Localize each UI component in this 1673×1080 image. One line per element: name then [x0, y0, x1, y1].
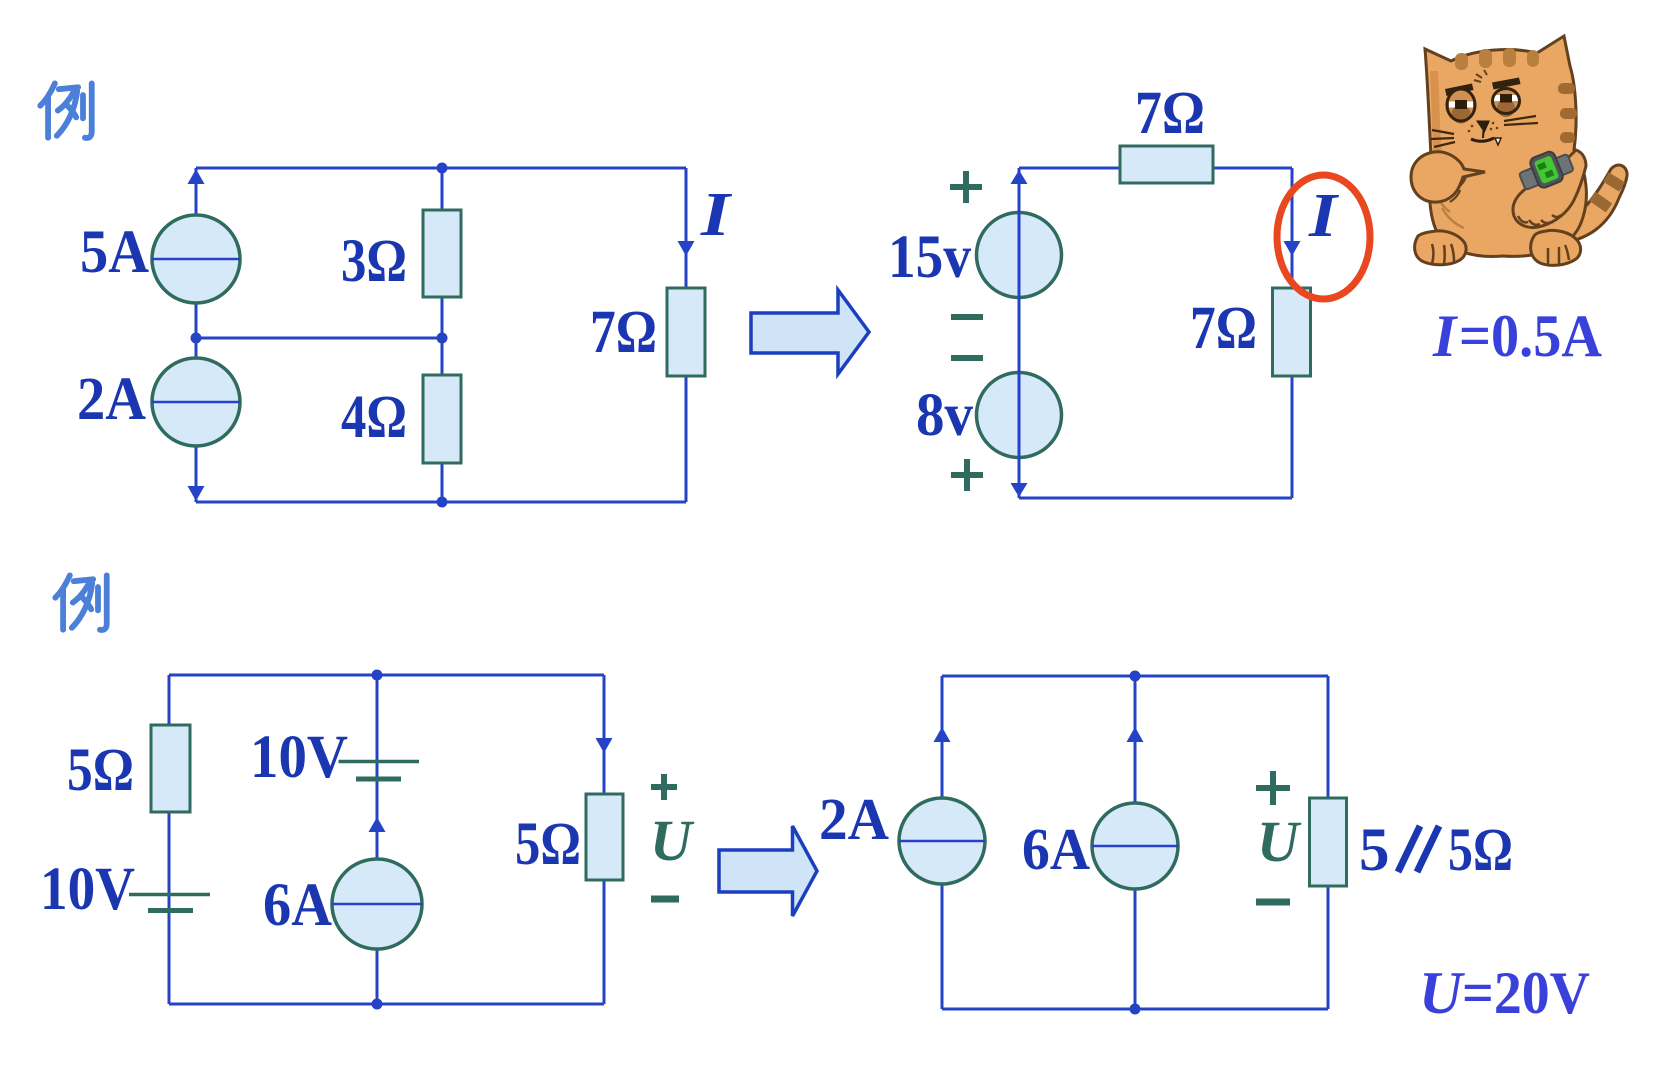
wire top: [942, 675, 1328, 678]
wire middle branch: [1134, 676, 1137, 1009]
cat left foot: [1415, 231, 1466, 265]
fist bumps: [1518, 215, 1561, 225]
resistor R1 3ohm: [423, 210, 461, 297]
junction node left middle: [191, 333, 202, 344]
minus sign 2: [951, 355, 983, 361]
svg-text:6A: 6A: [263, 872, 332, 939]
current source 2A circle: [899, 798, 985, 884]
voltage source US2 8v circle: [977, 373, 1062, 458]
resistor R2 4ohm: [423, 375, 461, 463]
svg-text:5Ω: 5Ω: [515, 811, 581, 878]
minus sign (U right): [1256, 899, 1290, 906]
svg-text:=0.5A: =0.5A: [1459, 303, 1602, 369]
svg-text:I: I: [1432, 303, 1459, 369]
resistor R3 7ohm: [667, 288, 705, 376]
cat left arm pointing: [1411, 152, 1485, 202]
wire right branch: [685, 168, 688, 502]
svg-text:15v: 15v: [888, 224, 971, 291]
block arrow (top): [751, 290, 869, 374]
wire bottom: [169, 1003, 604, 1006]
resistor 5//5 ohm: [1310, 798, 1347, 886]
wire bottom: [1019, 497, 1292, 500]
current source 6A circle: [1092, 803, 1178, 889]
cat fang: [1495, 138, 1501, 145]
plus sign top: [950, 171, 982, 203]
cat nose: [1476, 121, 1490, 134]
wire middle branch: [376, 675, 379, 1004]
svg-text:U: U: [650, 808, 695, 873]
resistor R5 7ohm vertical: [1273, 288, 1311, 376]
arrow up middle branch: [369, 817, 386, 832]
resistor R7 5ohm right: [586, 794, 623, 880]
cat mouth: [1471, 138, 1494, 141]
cat eyebrows: [1445, 84, 1474, 97]
freckles: [1468, 122, 1499, 133]
belly lines: [1438, 198, 1464, 228]
arrow up at top of source branch: [1011, 170, 1028, 184]
minus sign 1: [951, 314, 983, 320]
arrow current I down: [1284, 241, 1301, 256]
wire top: [1019, 167, 1292, 170]
wire left branch: [941, 676, 944, 1009]
red ellipse highlight: [1277, 175, 1370, 299]
wire left branch: [195, 168, 198, 502]
cat right foot: [1531, 230, 1581, 265]
svg-text:7Ω: 7Ω: [590, 299, 657, 366]
current source IS1 5A circle: [152, 215, 240, 303]
svg-text:10V: 10V: [40, 856, 135, 923]
cat right eye: [1493, 89, 1520, 114]
current source 6A circle: [332, 859, 422, 949]
junction node top: [1130, 671, 1141, 682]
frown wrinkles: [1474, 70, 1487, 82]
plus sign bottom: [951, 459, 983, 491]
wire middle branch: [441, 168, 444, 502]
arrow up (5A direction): [188, 169, 205, 184]
wire middle horizontal: [196, 337, 442, 340]
svg-text:I: I: [700, 181, 732, 249]
arrow current I down: [678, 241, 695, 256]
cat tail: [1550, 165, 1627, 243]
finger lines: [1450, 175, 1466, 202]
cat left eye: [1447, 89, 1475, 121]
left edge shading: [1434, 71, 1438, 159]
plus sign (U): [651, 774, 677, 800]
svg-text:U: U: [1257, 809, 1302, 874]
svg-text:5Ω: 5Ω: [1448, 817, 1513, 884]
current source IS2 2A circle: [152, 358, 240, 446]
svg-text:3Ω: 3Ω: [341, 228, 407, 295]
svg-text:7Ω: 7Ω: [1190, 295, 1257, 362]
wire left branch through sources: [1018, 168, 1021, 498]
wire bottom: [196, 501, 686, 504]
battery 10V left plates: [129, 893, 210, 897]
smartwatch: [1516, 145, 1576, 194]
junction node bottom middle: [437, 497, 448, 508]
wire right branch: [1327, 676, 1330, 1009]
example label 例 (bottom): [55, 575, 106, 630]
svg-text:U: U: [1419, 960, 1465, 1026]
right side stripes: [1558, 83, 1577, 143]
arrow up left branch: [934, 727, 951, 742]
wire left branch: [168, 675, 171, 1004]
svg-text:6A: 6A: [1022, 816, 1090, 882]
wire right branch: [1291, 168, 1294, 498]
svg-text:I: I: [1308, 182, 1339, 250]
head stripes: [1455, 48, 1539, 70]
svg-text:8v: 8v: [916, 382, 973, 449]
svg-text:2A: 2A: [77, 366, 146, 433]
plus sign (U right): [1256, 771, 1290, 805]
parallel slashes: [1398, 826, 1420, 872]
cat right arm with fist: [1513, 150, 1586, 228]
battery 10V middle plates: [339, 760, 420, 764]
wire right branch: [603, 675, 606, 1004]
cat whiskers: [1431, 116, 1538, 147]
svg-text:5: 5: [1359, 817, 1390, 884]
junction node top: [372, 670, 383, 681]
example label 例 (top): [40, 83, 91, 138]
svg-text:10V: 10V: [250, 724, 348, 791]
arrow down (2A direction): [188, 486, 205, 501]
wire bottom: [942, 1008, 1328, 1011]
voltage source US1 15v circle: [977, 213, 1062, 298]
junction node top middle: [437, 163, 448, 174]
resistor R6 5ohm: [151, 725, 190, 812]
svg-text:2A: 2A: [819, 786, 889, 852]
wire top: [169, 674, 604, 677]
arrow up mid branch: [1127, 727, 1144, 742]
wire top: [196, 167, 686, 170]
block arrow (bottom): [719, 826, 817, 916]
cat body and head: [1425, 36, 1586, 256]
junction node bottom: [1130, 1004, 1141, 1015]
resistor R4 7ohm horizontal: [1120, 146, 1213, 183]
svg-text:4Ω: 4Ω: [341, 384, 407, 451]
svg-text:7Ω: 7Ω: [1135, 80, 1205, 147]
svg-text:5A: 5A: [80, 219, 149, 286]
arrow down at bottom of source branch: [1011, 483, 1028, 497]
minus sign (U): [651, 896, 679, 903]
junction node center: [437, 333, 448, 344]
svg-text:5Ω: 5Ω: [67, 737, 134, 804]
junction node bottom: [372, 999, 383, 1010]
svg-text:=20V: =20V: [1462, 960, 1590, 1026]
arrow down right branch: [596, 738, 613, 753]
